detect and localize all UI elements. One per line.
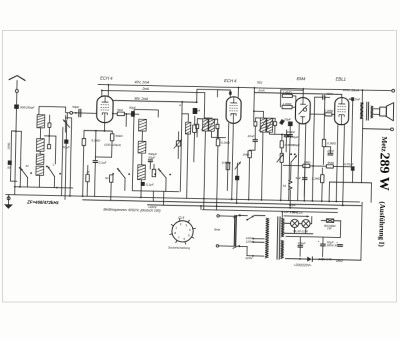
switch pickup contact bbox=[63, 120, 70, 128]
transformer mains secondary bbox=[281, 218, 284, 237]
svg-text:+: + bbox=[336, 240, 338, 244]
wire bus B 2mA bbox=[102, 90, 205, 92]
wire osc frame bottom bbox=[132, 190, 178, 193]
wire lamp feed bbox=[284, 222, 290, 224]
capacitor trimmer IF3b bbox=[273, 122, 276, 126]
svg-text:5kΩ: 5kΩ bbox=[117, 108, 123, 112]
wire HT winding out bbox=[286, 236, 340, 237]
capacitor trimmer IF3a bbox=[254, 122, 257, 126]
wire IF2 pri down bbox=[204, 131, 205, 199]
resistor 5M b bbox=[326, 165, 333, 168]
wire bbox=[182, 113, 188, 115]
resistor 0,3M eye feed bbox=[325, 113, 332, 116]
capacitor 50pF V1 right bbox=[131, 111, 135, 117]
resistor 0,3M AF bbox=[322, 139, 326, 146]
wire field coil box bbox=[330, 181, 372, 184]
wire branch to switch bbox=[11, 180, 17, 182]
node switch bbox=[30, 172, 32, 174]
resistor 50 bias bbox=[109, 175, 113, 182]
node antenna loop bbox=[19, 186, 21, 188]
capacitor electrolytic 50uF b bbox=[338, 245, 343, 247]
svg-text:≈6,3V 0,3A: ≈6,3V 0,3A bbox=[293, 229, 308, 233]
node A bbox=[181, 101, 183, 103]
capacitor 100uF AVC bbox=[284, 135, 289, 137]
node grid osc bbox=[112, 113, 114, 115]
capacitor trimmer osc bbox=[176, 141, 180, 146]
transformer mains core bbox=[276, 217, 279, 259]
resistor 4,7k cathode bbox=[82, 138, 86, 145]
svg-text:0,1MΩ: 0,1MΩ bbox=[221, 141, 231, 145]
switch arm bottom bbox=[233, 245, 240, 248]
svg-text:EM4: EM4 bbox=[297, 76, 306, 81]
capacitor 10nF coupling bbox=[323, 95, 325, 99]
capacitor 0,1uF cathode bbox=[93, 161, 98, 163]
resistor 1k bias bbox=[86, 174, 90, 181]
svg-text:10nF: 10nF bbox=[247, 134, 254, 138]
coil IF3 secondary bbox=[267, 118, 273, 132]
svg-text:100µF: 100µF bbox=[290, 135, 299, 139]
svg-text:5nF: 5nF bbox=[296, 176, 301, 180]
wire osc right rail bbox=[180, 102, 182, 192]
capacitor electrolytic 50uF bbox=[320, 244, 325, 246]
coil L7 osc padding bbox=[138, 165, 146, 180]
capacitor 20nF AF bbox=[328, 153, 333, 155]
coil L8 feedback bbox=[185, 122, 190, 134]
capacitor EM4 grid bbox=[288, 121, 293, 126]
svg-text:0,1µF: 0,1µF bbox=[146, 183, 154, 187]
capacitor 50uF cathode bypass bbox=[64, 139, 68, 143]
coil L1 antenna primary bbox=[37, 115, 45, 128]
svg-text:1,2MΩ: 1,2MΩ bbox=[312, 176, 322, 180]
svg-text:10µF: 10µF bbox=[289, 203, 296, 207]
wire transformer bottom bbox=[280, 257, 282, 259]
wire AGC lower bbox=[95, 156, 111, 158]
svg-text:50: 50 bbox=[105, 176, 109, 180]
svg-text:TA: TA bbox=[282, 184, 286, 188]
svg-text:Sockelschaltung: Sockelschaltung bbox=[168, 245, 190, 249]
svg-text:0,25µF: 0,25µF bbox=[344, 162, 354, 166]
svg-text:2mA: 2mA bbox=[141, 87, 149, 91]
svg-text:1,4MΩ: 1,4MΩ bbox=[283, 90, 293, 94]
tube socket CL4 base diagram bbox=[172, 221, 194, 243]
switch osc contact a bbox=[118, 169, 125, 178]
svg-text:A: A bbox=[178, 103, 181, 107]
svg-text:ECH 4: ECH 4 bbox=[100, 76, 113, 81]
svg-text:100pF: 100pF bbox=[287, 130, 296, 134]
resistor V2 cathode bbox=[226, 163, 230, 170]
resistor 1,4M eye a bbox=[282, 94, 292, 98]
svg-text:5nF: 5nF bbox=[355, 98, 360, 102]
wire bbox=[39, 151, 41, 154]
wire V2 cathode down bbox=[232, 123, 234, 199]
capacitor 50pF grid V1 bbox=[79, 109, 81, 117]
wire switch to bottom bbox=[26, 178, 28, 187]
lamp pilot 1 bbox=[290, 219, 298, 227]
wire EM4 top bbox=[302, 89, 304, 98]
svg-text:50µF: 50µF bbox=[148, 155, 155, 159]
svg-text:10nF: 10nF bbox=[326, 92, 333, 96]
wire HT to output transformer bbox=[361, 90, 363, 103]
diode rectifier E250C75 bbox=[307, 257, 312, 262]
svg-text:50kΩ: 50kΩ bbox=[115, 134, 123, 138]
coil L5 osc bbox=[139, 119, 147, 131]
tube EM4 bbox=[295, 97, 310, 124]
wire switch drops bbox=[124, 178, 126, 190]
wire osc grid drop bbox=[125, 114, 127, 127]
trimmer arrow IF3 secondary bbox=[265, 119, 272, 131]
wire IF3 feed bbox=[262, 111, 264, 118]
tube ECH4 V2 bbox=[226, 97, 241, 124]
potentiometer volume bbox=[280, 153, 283, 162]
wire DC rail bbox=[285, 258, 307, 260]
wire junction drops bbox=[140, 191, 142, 197]
svg-text:1k: 1k bbox=[86, 170, 90, 174]
capacitor osc grid blob bbox=[193, 108, 198, 114]
wire fuse to transformer bbox=[254, 214, 265, 216]
resistor 5M a bbox=[303, 164, 310, 167]
svg-text:0,3MΩ: 0,3MΩ bbox=[324, 109, 334, 113]
svg-text:ZF=468/472kHz: ZF=468/472kHz bbox=[26, 200, 60, 206]
svg-text:7,4V 0,1A: 7,4V 0,1A bbox=[289, 211, 302, 215]
resistor 5k anode V1 bbox=[117, 112, 124, 116]
wire transformer top to rail bbox=[281, 211, 283, 218]
svg-text:EBL1: EBL1 bbox=[336, 77, 346, 82]
wire return rail G2 bbox=[83, 200, 361, 206]
wire AF net bbox=[310, 165, 326, 167]
svg-text:≈200/220V≈: ≈200/220V≈ bbox=[294, 263, 312, 267]
coil IF2 secondary bbox=[209, 119, 215, 131]
wire B+ join bbox=[361, 202, 362, 260]
wire osc loop top bbox=[134, 110, 158, 118]
svg-text:Metz: Metz bbox=[380, 136, 388, 151]
capacitor 5nF AF bbox=[302, 178, 307, 180]
coil L3 wave range bbox=[36, 154, 44, 165]
terminal mains bottom bbox=[216, 245, 218, 247]
capacitor 0,5uF mains bbox=[298, 245, 303, 247]
wire V2 pin bbox=[227, 123, 228, 190]
capacitor antenna branch bbox=[8, 160, 12, 164]
wire switch frame bbox=[20, 131, 21, 186]
wire coupling loop top bbox=[39, 107, 66, 116]
terminal output bbox=[391, 128, 394, 131]
wire block bottom link bbox=[15, 187, 73, 188]
wire bottom out bbox=[239, 245, 247, 247]
jack TA phono bbox=[289, 180, 293, 184]
coil L2 antenna secondary bbox=[36, 139, 44, 152]
wire V2 plate to bus bbox=[237, 88, 239, 97]
capacitor 20pF diag bbox=[279, 119, 285, 125]
wire return rail G3 bbox=[148, 205, 338, 209]
wire outer frame bbox=[70, 118, 72, 196]
wire bbox=[39, 128, 41, 139]
wire coil column bottom bbox=[38, 175, 40, 187]
capacitor trimmer IF2b bbox=[216, 124, 219, 128]
capacitor trimmer IF2a bbox=[196, 124, 199, 128]
wire B+ down to supply bbox=[360, 136, 363, 183]
wire IF3 down bbox=[262, 132, 263, 200]
wire mains top bbox=[219, 215, 235, 217]
svg-text:0,3MΩ: 0,3MΩ bbox=[327, 141, 337, 145]
wire V1 anode to osc bbox=[113, 113, 117, 115]
svg-text:0,1µF: 0,1µF bbox=[99, 161, 107, 165]
capacitor 5nF tone bbox=[351, 97, 354, 101]
tube EBL1 bbox=[334, 97, 349, 124]
node bus A / tube V1 feed bbox=[101, 90, 103, 92]
wire heater run with arrow bbox=[284, 215, 309, 218]
wire TA leads bbox=[290, 162, 292, 180]
fuse 1A bbox=[248, 216, 254, 220]
resistor 0,3M det bbox=[280, 141, 284, 148]
switch gram/radio bbox=[290, 153, 292, 155]
wire speaker return bbox=[363, 128, 391, 131]
svg-text:(Ausführung I): (Ausführung I) bbox=[377, 201, 386, 247]
svg-text:0,5µF: 0,5µF bbox=[298, 241, 306, 245]
transformer output secondary bbox=[371, 106, 373, 118]
fuse 80/100 ohm bbox=[326, 219, 333, 223]
terminal HT+ right end bbox=[392, 89, 395, 92]
svg-text:220V: 220V bbox=[244, 256, 253, 260]
resistor 1,2M AF bbox=[321, 175, 325, 183]
lamp pilot 2 bbox=[302, 219, 310, 227]
coil IF3 primary bbox=[260, 118, 266, 132]
transformer mains primary bbox=[265, 218, 269, 258]
switch wave selector contact a bbox=[21, 168, 28, 177]
svg-text:CL4: CL4 bbox=[178, 216, 184, 220]
wire V1 cathode down bbox=[103, 123, 105, 131]
wire osc frame left bbox=[132, 117, 134, 191]
coil IF2 primary bbox=[202, 119, 208, 131]
wire IF2 feed bbox=[203, 93, 206, 118]
wire EBL1 down bbox=[336, 125, 338, 202]
wire cathode bus bbox=[84, 129, 112, 132]
trimmer arrow IF3 primary bbox=[259, 119, 266, 131]
antenna bbox=[9, 75, 25, 80]
capacitor 0,1uF osc bbox=[141, 182, 145, 186]
wire EM4-EBL1 vertical bbox=[312, 97, 314, 201]
resistor osc grid bbox=[193, 125, 197, 132]
wire IF2 sec to grid bbox=[211, 131, 225, 137]
terminal coupling bbox=[70, 111, 73, 114]
wire block right frame bbox=[64, 115, 66, 132]
resistor 1,4M eye b bbox=[282, 105, 292, 109]
capacitor 500/250pF antenna series bbox=[14, 104, 19, 108]
trimmer arrow IF2 secondary bbox=[208, 120, 215, 131]
wire grid feed V1 bbox=[66, 112, 70, 114]
switch arm top bbox=[234, 214, 241, 217]
wire mains bottom bbox=[219, 245, 235, 247]
wire to fuse bbox=[240, 215, 248, 217]
coil L6 osc bbox=[138, 141, 146, 153]
svg-text:50pF: 50pF bbox=[129, 106, 136, 110]
capacitor V2 cathode bbox=[235, 176, 239, 180]
svg-text:1,4MΩ: 1,4MΩ bbox=[282, 102, 292, 106]
svg-text:(100-120µA): (100-120µA) bbox=[104, 142, 121, 146]
svg-text:6,8MΩ: 6,8MΩ bbox=[222, 160, 232, 164]
capacitor 100pF detector bbox=[287, 135, 292, 137]
svg-text:2mA: 2mA bbox=[257, 88, 264, 92]
switch mains double-pole bbox=[233, 215, 236, 246]
wire anode supply bus A (+HT) bbox=[98, 85, 391, 91]
svg-text:20pF: 20pF bbox=[283, 117, 291, 121]
tube ECH4 V1 bbox=[97, 96, 114, 123]
svg-text:40V, 2mA: 40V, 2mA bbox=[135, 80, 150, 84]
wire heater rail G4 bbox=[202, 210, 337, 213]
capacitor trimmer bandfilter 1 bbox=[48, 123, 51, 127]
svg-text:185V, 29mA: 185V, 29mA bbox=[343, 88, 359, 92]
transformer output core bbox=[366, 102, 368, 120]
svg-text:289 W: 289 W bbox=[376, 152, 392, 191]
svg-text:1000,: 1000, bbox=[6, 142, 10, 150]
resistor 50k AGC bbox=[110, 134, 114, 141]
wire antenna lead lower bbox=[15, 109, 17, 187]
trimmer arrow IF2 primary bbox=[201, 120, 208, 131]
wire tap leads bbox=[253, 238, 264, 240]
capacitor 10nF det bbox=[253, 140, 258, 142]
svg-text:180V: 180V bbox=[336, 259, 344, 263]
potentiometer IF gain bbox=[235, 162, 241, 170]
svg-text:70V: 70V bbox=[257, 81, 264, 85]
svg-text:2mA: 2mA bbox=[193, 108, 200, 112]
capacitor 0,25uF bbox=[351, 166, 355, 170]
wire EM4 bottom bbox=[298, 124, 300, 201]
wire left branch bbox=[12, 130, 16, 132]
wire chassis rail G1 bbox=[6, 195, 360, 202]
svg-text:500/250pF: 500/250pF bbox=[20, 106, 35, 110]
wire lamp returns bbox=[293, 228, 295, 234]
svg-text:5MΩ: 5MΩ bbox=[304, 160, 311, 164]
terminal mains top bbox=[217, 215, 219, 217]
resistor 0,1M IF bbox=[216, 139, 220, 146]
resistor 1k osc bbox=[152, 169, 156, 176]
speaker bbox=[380, 107, 387, 116]
coil L4 wave range bbox=[36, 166, 44, 175]
wire bus C 48V screen bbox=[113, 100, 197, 102]
wire V1 anode top bbox=[107, 85, 109, 96]
svg-text:Netz: Netz bbox=[214, 227, 221, 231]
wire eye resistor frame bbox=[279, 90, 281, 107]
wire secondary to speaker bbox=[374, 108, 380, 110]
svg-text:0,1MΩ: 0,1MΩ bbox=[91, 138, 101, 142]
switch osc contact b bbox=[159, 170, 166, 178]
capacitor padding bbox=[148, 160, 152, 162]
svg-text:E250 C75: E250 C75 bbox=[318, 257, 332, 261]
svg-text:1MΩ: 1MΩ bbox=[243, 152, 250, 156]
terminal antenna bbox=[15, 89, 18, 92]
transformer output primary bbox=[360, 103, 363, 119]
wire block inner bbox=[54, 136, 57, 164]
wire AF line bbox=[283, 164, 303, 166]
wire bbox=[61, 127, 62, 195]
capacitor grid cap V2 bbox=[229, 92, 232, 95]
wire V2 grid loop bbox=[197, 89, 218, 102]
wire antenna lead bbox=[16, 92, 18, 104]
resistor 1M AGC bbox=[248, 151, 252, 158]
svg-text:50: 50 bbox=[7, 166, 11, 170]
switch wave selector contact b bbox=[48, 166, 55, 176]
capacitor trimmer bandfilter 2 bbox=[47, 144, 50, 148]
svg-text:ECH 4: ECH 4 bbox=[224, 78, 237, 83]
ground chassis bbox=[7, 195, 9, 205]
svg-text:50pF: 50pF bbox=[72, 105, 79, 109]
svg-text:+: + bbox=[318, 239, 320, 243]
svg-text:48V, 2mA: 48V, 2mA bbox=[134, 97, 148, 101]
svg-text:20nF: 20nF bbox=[326, 149, 334, 153]
svg-text:5MΩ: 5MΩ bbox=[327, 161, 334, 165]
wire bus B2 185V feed bbox=[254, 93, 341, 95]
wire primary bottom bbox=[361, 119, 363, 136]
